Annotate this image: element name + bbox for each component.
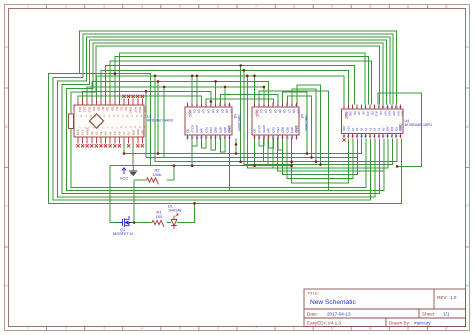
wire R2 top link (173, 166, 175, 180)
svg-text:IO4: IO4 (396, 111, 400, 116)
wire IC1 cascade U2 (202, 139, 207, 149)
wire IC1 cascade U3 (211, 139, 216, 151)
svg-text:OE: OE (370, 111, 374, 115)
wire gap drop 2 (244, 70, 268, 164)
svg-text:1/1: 1/1 (443, 312, 450, 317)
svg-text:GND: GND (228, 126, 232, 132)
svg-text:9: 9 (331, 5, 333, 9)
junction gnd rail 4 (290, 164, 293, 167)
svg-text:Q2: Q2 (264, 109, 268, 113)
svg-text:D11: D11 (83, 107, 87, 113)
svg-text:NC: NC (353, 111, 357, 115)
junction riser 2 (310, 156, 313, 159)
wire nano D7 to IC (101, 70, 348, 104)
U1 pin name labels (76, 107, 146, 135)
svg-text:7: 7 (255, 327, 257, 331)
junction riser 3 (315, 160, 318, 163)
svg-text:A1: A1 (95, 131, 99, 135)
wire gap drop 1 (240, 66, 242, 162)
wire nano D10 to IC (87, 87, 264, 105)
svg-text:6: 6 (217, 327, 219, 331)
svg-text:D8: D8 (97, 107, 101, 111)
svg-text:VCC: VCC (344, 111, 348, 117)
svg-text:D10: D10 (87, 107, 91, 113)
junction gnd rail 3 (253, 164, 256, 167)
svg-text:SHCP: SHCP (262, 125, 266, 133)
svg-text:5V: 5V (127, 132, 131, 136)
svg-text:3: 3 (103, 5, 105, 9)
svg-text:STCP: STCP (190, 125, 194, 133)
wire addr bus 0 (264, 139, 398, 162)
wire outer loop 4 (EEPROM bus) (62, 40, 387, 194)
wire loop via IC2 (71, 91, 329, 191)
junction IC1 top (210, 100, 213, 103)
svg-text:5: 5 (179, 327, 181, 331)
svg-text:GND: GND (129, 107, 133, 115)
wire IC1 gnd drop (235, 139, 237, 154)
svg-text:5: 5 (361, 106, 363, 109)
wire IC1 pin2 riser (191, 76, 193, 105)
svg-text:2: 2 (65, 5, 67, 9)
svg-text:VIN: VIN (141, 130, 145, 135)
resistor R1 100 (152, 220, 164, 227)
svg-text:GND: GND (399, 125, 403, 131)
svg-text:3: 3 (263, 104, 265, 107)
svg-text:Q7S: Q7S (204, 127, 208, 133)
svg-text:D6: D6 (106, 107, 110, 111)
op-amp U1 Arduino Nano module (74, 105, 144, 137)
svg-text:7: 7 (369, 106, 371, 109)
svg-text:12: 12 (390, 106, 393, 109)
svg-text:12: 12 (223, 136, 226, 139)
svg-text:12: 12 (290, 136, 293, 139)
svg-text:3V3: 3V3 (81, 130, 85, 136)
svg-text:9: 9 (378, 106, 380, 109)
wire nano D5 to IC (110, 61, 371, 105)
svg-text:1: 1 (27, 5, 29, 9)
svg-text:12: 12 (444, 327, 448, 331)
shift register U3 74HC595N (252, 103, 308, 140)
wire outer loop 5 (EEPROM bus) (66, 43, 384, 191)
svg-text:9: 9 (224, 104, 226, 107)
junction gap 3 (246, 75, 249, 78)
wire IC1 pin7 riser (215, 81, 217, 104)
svg-text:14: 14 (214, 136, 217, 139)
svg-text:D9: D9 (92, 107, 96, 111)
svg-text:5: 5 (273, 104, 275, 107)
svg-text:2: 2 (259, 104, 261, 107)
svg-text:17: 17 (390, 135, 393, 138)
wire outer loop 6 (EEPROM bus) (71, 46, 380, 187)
svg-text:3: 3 (196, 104, 198, 107)
wire outer loop 1 (EEPROM bus) (48, 31, 401, 203)
junction node G (157, 80, 160, 83)
svg-text:11: 11 (386, 106, 389, 109)
svg-text:16: 16 (272, 136, 275, 139)
wire IC2-IC3 gap riser 4 (297, 85, 321, 165)
svg-text:10: 10 (228, 104, 231, 107)
svg-text:20: 20 (253, 136, 256, 139)
junction 5V rail 2 (157, 152, 160, 155)
svg-text:6: 6 (210, 104, 212, 107)
transistor Q1 NMOS (119, 216, 131, 227)
svg-text:2017-04-13: 2017-04-13 (327, 312, 351, 317)
junction IC1 p7 (214, 80, 217, 83)
svg-text:A3: A3 (104, 131, 108, 135)
diode D1 1N4148 (171, 214, 178, 229)
memory U4 AT28C64B-15PU (342, 105, 433, 142)
svg-text:D13: D13 (76, 129, 80, 135)
wire branch to rail 2 (157, 81, 159, 153)
svg-text:A7: A7 (122, 131, 126, 135)
wire IC1-IC2 shared latch (220, 95, 278, 105)
svg-text:IO6: IO6 (388, 111, 392, 116)
svg-text:C: C (5, 204, 8, 208)
svg-text:A4: A4 (108, 131, 112, 135)
svg-text:STCP: STCP (257, 125, 261, 133)
svg-text:ARDUINO NANO: ARDUINO NANO (147, 119, 174, 123)
wire IC1 cascade U1 (192, 139, 197, 147)
wire mosfet to R1 (131, 222, 152, 224)
svg-text:Q7S: Q7S (271, 127, 275, 133)
wire D1 to corner (177, 203, 195, 222)
svg-text:4: 4 (141, 5, 143, 9)
title block frame (304, 289, 466, 327)
svg-text:100: 100 (156, 214, 163, 219)
svg-text:DS2: DS2 (209, 127, 213, 133)
wire outer loop 2 (EEPROM bus) (53, 34, 393, 200)
svg-text:Q3: Q3 (269, 109, 273, 113)
svg-text:1: 1 (27, 327, 29, 331)
svg-text:9: 9 (331, 327, 333, 331)
svg-text:1: 1 (343, 106, 345, 109)
svg-text:4: 4 (356, 106, 358, 109)
wire addr bus 6 (292, 139, 349, 183)
svg-text:5: 5 (179, 5, 181, 9)
junction gnd rail R2 (173, 164, 176, 167)
svg-text:Q2B: Q2B (290, 127, 294, 133)
svg-text:Q4: Q4 (273, 109, 277, 113)
svg-text:Q1B: Q1B (218, 127, 222, 133)
svg-text:VCC: VCC (120, 176, 129, 181)
svg-text:D7: D7 (101, 107, 105, 111)
svg-text:8: 8 (374, 106, 376, 109)
wire IC2-IC3 gap riser 2 (287, 96, 311, 157)
svg-text:Q0B: Q0B (281, 127, 285, 133)
svg-text:6: 6 (217, 5, 219, 9)
svg-text:26: 26 (351, 135, 354, 138)
wire IC1 pin3 riser (196, 76, 198, 105)
wire addr bus 2 (273, 139, 388, 169)
svg-text:13: 13 (219, 136, 222, 139)
svg-text:18: 18 (386, 135, 389, 138)
svg-text:21: 21 (373, 135, 376, 138)
svg-text:A11: A11 (366, 111, 370, 116)
wire IC1 pin2 gnd drop (191, 139, 193, 166)
svg-text:A9: A9 (362, 111, 366, 115)
svg-text:13: 13 (286, 136, 289, 139)
wire box left (110, 166, 119, 223)
svg-text:AT28C64B-15PU: AT28C64B-15PU (405, 123, 433, 127)
wire IC1-IC2 shared clock (206, 99, 273, 105)
svg-text:15: 15 (276, 136, 279, 139)
svg-text:U2: U2 (233, 114, 237, 118)
svg-text:10: 10 (382, 106, 385, 109)
wire rail 2 (146, 139, 357, 158)
svg-text:1.0: 1.0 (450, 295, 457, 300)
svg-text:3: 3 (352, 106, 354, 109)
wire net N1 extension (80, 74, 151, 166)
junction IC1 bottom (235, 143, 238, 146)
svg-text:A2: A2 (373, 127, 377, 131)
svg-text:TX1: TX1 (143, 107, 147, 113)
svg-text:5: 5 (206, 104, 208, 107)
svg-text:A10: A10 (375, 111, 379, 117)
wire 5V rail (124, 139, 362, 154)
svg-text:8: 8 (287, 104, 289, 107)
shift register U2 74HC595N (185, 103, 241, 140)
svg-text:4: 4 (268, 104, 270, 107)
svg-text:D2: D2 (124, 107, 128, 111)
wire outer loop 3 (EEPROM bus) (57, 37, 390, 197)
wire IC2 cascade U2 (269, 139, 274, 149)
svg-text:74HC595N: 74HC595N (237, 114, 241, 131)
svg-text:DS2: DS2 (276, 127, 280, 133)
wire IC2 pin1 riser (254, 76, 256, 105)
wire nano D12 to IC (78, 96, 202, 104)
svg-text:RST: RST (133, 107, 137, 113)
svg-text:8: 8 (220, 104, 222, 107)
junction mosfet gate (133, 221, 136, 224)
svg-text:DS: DS (297, 109, 301, 113)
U1 pin stubs (78, 99, 142, 144)
junction riser 1 (306, 152, 309, 155)
wire nano side drop (145, 91, 147, 157)
svg-text:D12: D12 (78, 107, 82, 113)
junction 5V rail (123, 152, 126, 155)
svg-text:18: 18 (195, 136, 198, 139)
wire IC2 pin drop (254, 139, 256, 166)
svg-text:7: 7 (255, 5, 257, 9)
svg-text:2: 2 (65, 327, 67, 331)
svg-text:GND: GND (295, 126, 299, 132)
wire gnd rail (110, 139, 292, 166)
svg-text:VCC: VCC (188, 109, 192, 115)
svg-text:VCC: VCC (255, 109, 259, 115)
junction gap 1 (239, 64, 242, 67)
junction riser 4 (319, 163, 322, 166)
junction node A (114, 72, 117, 75)
svg-text:6: 6 (365, 106, 367, 109)
svg-text:11: 11 (406, 327, 410, 331)
svg-text:MR: MR (267, 128, 271, 133)
svg-text:A2: A2 (99, 131, 103, 135)
wire IC1 pin10 long drop (229, 139, 231, 191)
svg-text:A0: A0 (381, 127, 385, 131)
svg-text:1: 1 (254, 104, 256, 107)
svg-text:11: 11 (406, 5, 410, 9)
svg-text:Q3: Q3 (202, 109, 206, 113)
junction bus corner (193, 202, 196, 205)
junction IC1 p9 (224, 86, 227, 89)
svg-text:8: 8 (293, 5, 295, 9)
svg-text:B: B (466, 125, 468, 129)
wire R1 to D1 (167, 222, 171, 224)
wire IC2-IC3 gap riser 3 (292, 89, 316, 162)
junction gnd rail 2 (191, 164, 194, 167)
svg-text:TITLE:: TITLE: (307, 291, 319, 296)
junction addr bus (290, 160, 293, 163)
svg-text:10: 10 (368, 5, 372, 9)
svg-text:11: 11 (228, 136, 231, 139)
wire nano D4 riser (113, 57, 116, 99)
wire nano D11 to IC (83, 91, 211, 104)
svg-text:23: 23 (364, 135, 367, 138)
svg-text:Q2: Q2 (197, 109, 201, 113)
svg-text:A6: A6 (355, 127, 359, 131)
svg-text:Q7: Q7 (220, 109, 224, 113)
svg-text:Q6: Q6 (283, 109, 287, 113)
svg-text:Q7: Q7 (287, 109, 291, 113)
wire IC3 right side loop (378, 93, 422, 166)
svg-text:2: 2 (192, 104, 194, 107)
svg-text:IO1: IO1 (390, 126, 394, 131)
svg-text:A: A (466, 45, 469, 49)
svg-text:1N4148: 1N4148 (168, 209, 181, 213)
svg-text:13: 13 (395, 106, 398, 109)
svg-text:IO7: IO7 (383, 111, 387, 116)
svg-text:22: 22 (369, 135, 372, 138)
wire IC2 cascade U3 (278, 139, 283, 151)
svg-text:Q1: Q1 (192, 109, 196, 113)
junction node F (163, 86, 166, 89)
junction IC3 right (396, 165, 399, 168)
svg-text:A0: A0 (90, 131, 94, 135)
junction node C (191, 75, 194, 78)
svg-text:14: 14 (281, 136, 284, 139)
wire addr bus 1 (268, 139, 392, 165)
svg-text:D5: D5 (110, 107, 114, 111)
svg-text:8: 8 (293, 327, 295, 331)
svg-text:74HC595N: 74HC595N (304, 114, 308, 131)
svg-text:MOSFET-N: MOSFET-N (113, 232, 133, 236)
wire branch to rail 3 (163, 87, 165, 157)
svg-text:Q6: Q6 (216, 109, 220, 113)
svg-text:A5: A5 (113, 131, 117, 135)
svg-text:D3: D3 (120, 107, 124, 111)
wire IC2-IC3 gap riser 1 (283, 92, 307, 154)
junction node D (253, 75, 256, 78)
svg-text:9: 9 (291, 104, 293, 107)
svg-text:18: 18 (262, 136, 265, 139)
junction gap 2 (243, 69, 246, 72)
svg-text:U3: U3 (300, 114, 304, 118)
wire R2 left drop (133, 180, 135, 223)
svg-text:Q0B: Q0B (214, 127, 218, 133)
svg-text:7: 7 (282, 104, 284, 107)
svg-text:3: 3 (103, 327, 105, 331)
resistor R2 100k (147, 178, 159, 185)
svg-text:SHCP: SHCP (195, 125, 199, 133)
svg-text:D: D (466, 284, 469, 288)
svg-text:Drawn By:: Drawn By: (389, 321, 410, 326)
svg-text:RX0: RX0 (138, 107, 142, 113)
svg-text:OE: OE (253, 129, 257, 133)
svg-text:15: 15 (209, 136, 212, 139)
junction gap 1b (239, 160, 242, 163)
svg-text:IO5: IO5 (392, 111, 396, 116)
wire nano D4 to IC (115, 57, 368, 105)
svg-text:16: 16 (395, 135, 398, 138)
svg-text:20: 20 (377, 135, 380, 138)
svg-text:10: 10 (368, 327, 372, 331)
wire IC2 cascade U1 (259, 139, 264, 147)
svg-text:A6: A6 (118, 131, 122, 135)
svg-text:IO3: IO3 (401, 111, 405, 116)
junction nano side (145, 90, 148, 93)
svg-text:Q0: Q0 (292, 109, 296, 113)
wire nano D8 to IC (96, 76, 344, 105)
ground symbol (129, 166, 137, 176)
junction IC1 p3 (196, 75, 199, 78)
svg-text:19: 19 (382, 135, 385, 138)
svg-text:D: D (5, 284, 8, 288)
wire IC1 cascade U4 (220, 139, 225, 153)
svg-text:A12: A12 (347, 126, 351, 132)
svg-text:7: 7 (215, 104, 217, 107)
svg-text:DS: DS (230, 109, 234, 113)
wire nano gnd pin drop (132, 144, 134, 167)
svg-text:OE: OE (186, 129, 190, 133)
svg-text:16: 16 (205, 136, 208, 139)
svg-text:A: A (5, 45, 8, 49)
wire IC1 pin9 riser (224, 87, 226, 105)
svg-text:mercury: mercury (414, 321, 431, 326)
wire nano D6 to IC (106, 66, 355, 105)
svg-text:27: 27 (347, 135, 350, 138)
wire addr bus 4 (282, 139, 357, 175)
svg-text:Q5: Q5 (278, 109, 282, 113)
svg-text:19: 19 (191, 136, 194, 139)
wire nano D3 to IC (119, 53, 365, 105)
svg-text:Q1B: Q1B (285, 127, 289, 133)
svg-text:C: C (466, 204, 469, 208)
svg-text:Q5: Q5 (211, 109, 215, 113)
svg-text:12: 12 (444, 5, 448, 9)
svg-text:Q4: Q4 (206, 109, 210, 113)
svg-text:14: 14 (399, 106, 402, 109)
svg-text:CE: CE (379, 111, 383, 115)
junction node E (263, 86, 266, 89)
svg-text:REV:: REV: (437, 295, 448, 300)
junction 5V rail 3 (235, 152, 238, 155)
svg-text:Date:: Date: (307, 312, 318, 317)
wire branch to addr line (155, 76, 264, 162)
svg-text:B: B (5, 125, 7, 129)
wire nano D9 to IC (92, 81, 269, 104)
svg-text:24: 24 (360, 135, 363, 138)
svg-text:10: 10 (295, 104, 298, 107)
svg-text:19: 19 (258, 136, 261, 139)
svg-text:D4: D4 (115, 107, 119, 111)
wire gap drop 3 (247, 76, 273, 168)
svg-text:17: 17 (267, 136, 270, 139)
svg-text:EasyEDA V4.1.3: EasyEDA V4.1.3 (307, 321, 341, 326)
svg-text:28: 28 (343, 135, 346, 138)
wire addr bus 3 (278, 139, 384, 172)
svg-text:4: 4 (141, 327, 143, 331)
svg-text:A4: A4 (364, 127, 368, 131)
